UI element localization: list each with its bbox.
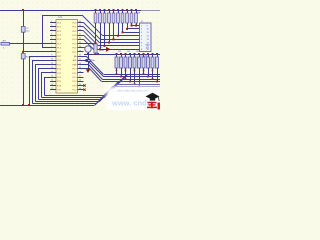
wire P0.3 diagonal [84,31,99,46]
wire RST to U1 pin 9 [23,51,56,53]
wire XTAL rail [84,54,160,56]
svg-text:15: 15 [51,80,53,82]
resistor R17 [138,53,141,87]
wire U1 left pin 3 stub [50,30,56,32]
junction C1/GND [22,104,24,106]
svg-text:4: 4 [51,34,52,36]
svg-text:34: 34 [79,46,81,48]
node watermark patch [106,86,176,116]
op-amp U1 AT89C51 body [56,20,78,94]
wire bus line y101 to rail y81.5 [36,82,161,102]
wire P0.4 diagonal [84,35,98,49]
wire U1 right pin 35 stub [78,43,84,45]
wire to J1 pin 8 [98,49,140,51]
wire U1 left pin 4 stub [50,35,56,37]
wire U1 left pin 8 stub [50,51,56,53]
wire to J1 pin 6 [99,42,139,44]
wire Y1 to pin XTAL2 [84,47,85,49]
wire U1 pin y60.3 to rail y76.5 [84,61,104,77]
wire U1 left pin 17 stub [50,89,56,91]
wire U1 pin y77.1 to bus [45,78,57,96]
svg-text:36: 36 [79,38,81,40]
wire to J1 pin 5 [100,39,139,41]
resistor R18 [142,53,145,75]
wire U1 pin y72.9 to bus [42,73,57,98]
wire U1 left pin 7 stub [50,47,56,49]
connector JP1 pin [1,41,10,50]
capacitor C1 [21,27,30,33]
wire U1 pin y68.7 to bus [39,69,57,100]
resistor R2 [94,9,97,44]
wire U1 left pin 2 stub [50,26,56,28]
svg-text:102: 102 [136,51,139,53]
wire P0.5 diagonal [84,39,99,54]
node RST junction [22,51,24,53]
crystal Y1 circle [85,46,91,52]
wire U1 left pin 12 stub [50,68,56,70]
resistor R14 [124,53,127,80]
svg-text:31: 31 [79,59,81,61]
svg-text:2: 2 [51,25,52,27]
svg-text:29: 29 [79,67,81,69]
resistor R21 [156,53,159,82]
resistor R19 [147,53,150,77]
wire to J1 pin 1 [132,25,140,27]
wire U1 right pin 26 stub [78,81,84,83]
svg-text:3: 3 [51,29,52,31]
wire U1 left pin 10 stub [50,60,56,62]
wire P3.0 to GND [30,57,57,106]
wire U1 pin y60.3 to bus [33,61,57,104]
svg-text:24: 24 [79,88,81,90]
wire U1 left pin 14 stub [50,77,56,79]
wire U1 right pin 37 stub [78,35,84,37]
wire U1 pin y68.7 to rail y81.5 [84,69,102,82]
svg-text:12M: 12M [100,50,104,52]
wire U1 left pin 5 stub [50,39,56,41]
resistor R1 [21,54,32,59]
svg-text:37: 37 [79,34,81,36]
wire VCC top rail [0,10,160,12]
resistor R3 [99,9,102,50]
resistor R15 [129,53,132,82]
svg-text:33: 33 [79,50,81,52]
wire EA/VPP over U1 [42,15,82,17]
wire rail gray tail [141,10,160,12]
svg-text:17: 17 [51,88,53,90]
wire U1 left pin 16 stub [50,85,56,87]
node watermark red glyph [147,102,160,110]
resistor R6 [112,9,115,40]
wire U1 right pin 27 stub [78,77,84,79]
node NC mark 2 [83,89,85,91]
svg-text:30: 30 [79,63,81,65]
wire U1 left pin 11 stub [50,64,56,66]
wire U1 right pin 33 stub [78,51,84,53]
svg-text:5: 5 [51,38,52,40]
wire Y1 to rail [88,52,90,54]
svg-text:35: 35 [79,42,81,44]
wire U1 pin y64.5 to rail y79 [84,65,103,80]
wire U1 right pin 39 stub [78,26,84,28]
wire U1 left pin 9 stub [50,56,56,58]
wire U1 pin y64.5 to bus [36,65,57,102]
node fan junction [97,53,99,55]
svg-text:7: 7 [51,46,52,48]
wire to J1 pin 4 [103,35,140,37]
svg-text:40: 40 [79,21,81,23]
wire rail segment y74 [104,74,128,76]
wire U1 right pin 36 stub [78,39,84,41]
resistor R12 [115,53,118,75]
svg-text:ALE: ALE [73,59,77,62]
resistor R5 [108,9,111,44]
wire rail segment y76.5 [103,76,125,78]
svg-text:1: 1 [51,21,52,23]
resistor R8 [121,9,124,33]
resistor R16 [133,53,136,85]
wire U1 left pin 6 stub [50,43,56,45]
wire U1 right pin 38 stub [78,30,84,32]
capacitor C3 body [94,42,97,55]
wire U1 left pin 13 stub [50,72,56,74]
wire U1 right pin 40 stub [78,22,84,24]
svg-text:....... dianzi ziliao www.cndz: ....... dianzi ziliao www.cndzz.com ....… [112,90,153,93]
wire bus line y99 to rail y79 [39,80,161,100]
wire bus line y97 to rail y76.5 [42,77,161,98]
svg-text:102: 102 [118,51,121,53]
svg-text:39: 39 [79,25,81,27]
resistor R20 [151,53,154,80]
wire U1 right pin 28 stub [78,72,84,74]
wire U1 pin y56.1 to rail y74 [84,57,104,75]
wire GND bottom rail [0,105,94,107]
ground port arrow [86,68,90,73]
svg-text:26: 26 [79,80,81,82]
svg-text:25: 25 [79,84,81,86]
wire bus line y95 to rail y74 [45,75,161,96]
wire U1 left pin 15 stub [50,81,56,83]
svg-text:6: 6 [51,42,52,44]
node watermark cap logo [146,93,160,101]
connector J1 body [140,23,152,52]
wire VCC to C1 [23,10,25,27]
resistor R10 [130,9,133,27]
resistor R7 [117,9,120,37]
svg-text:28: 28 [79,71,81,73]
wire U1 right pin 31 stub [78,60,84,62]
capacitor C2 [86,53,96,68]
wire rail segment y81.5 [102,81,119,83]
wire R1 to GND rail [23,59,25,105]
svg-text:32: 32 [79,55,81,57]
svg-text:27: 27 [79,76,81,78]
svg-text:38: 38 [79,29,81,31]
wire U1 left pin 1 stub [50,22,56,24]
wire U1 right pin 34 stub [78,47,84,49]
wire U1 right pin 30 stub [78,64,84,66]
wire JP1 to U1 [10,43,56,45]
resistor R11 [135,9,138,27]
wire P0.1 diagonal [84,23,101,40]
svg-text:8: 8 [51,50,52,52]
wire bus line y103 to rail y84 [33,85,161,104]
wire C1 to node RST [23,32,25,52]
wire to J1 pin 7 [99,45,140,47]
wire U1 right pin 25 stub [78,85,84,87]
wire U1 right pin 32 stub [78,56,84,58]
wire P0.2 diagonal [84,27,100,43]
wire XTAL1 stub to C3 [84,43,96,45]
resistor R4 [103,9,106,47]
svg-text:16: 16 [51,84,53,86]
wire U1 right pin 29 stub [78,68,84,70]
power VCC arrow right [102,47,111,52]
wire rail segment y79 [103,79,123,81]
svg-text:10K: 10K [137,13,141,15]
svg-text:PSE: PSE [72,64,77,66]
resistor R9 [126,9,129,30]
wire to J1 pin 2 [127,28,140,30]
node NC mark 1 [83,84,85,86]
wire U1 right pin 24 stub [78,89,84,91]
wire GND bus diagonal to rail [95,87,161,106]
resistor R13 [120,53,123,77]
svg-text:102: 102 [127,51,130,53]
svg-text:U1: U1 [59,15,63,19]
wire P0.0 diagonal [82,15,103,36]
wire to J1 pin 3 [123,32,140,34]
